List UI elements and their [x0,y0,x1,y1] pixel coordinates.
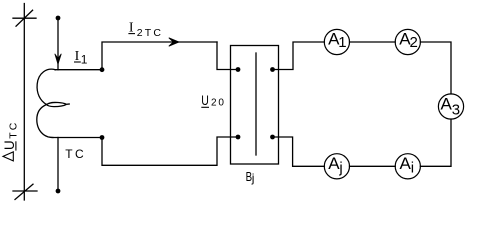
transformer TC winding lower arc [37,105,53,138]
arrow I2tc [169,38,179,46]
wire lower link to box [102,137,238,165]
svg-text:A: A [400,154,412,173]
wire A3 to corner to Ai [420,119,451,166]
ammeter Aj [324,154,349,179]
transformer TC winding upper arc [37,69,55,104]
svg-text:20: 20 [211,98,226,109]
switch box Bj divider [255,53,257,155]
transformer TC winding crossing lens [47,102,70,106]
wire Aj to box lower-right [273,137,325,166]
svg-text:j: j [338,160,342,177]
wire drop to box upper-left [217,42,238,70]
svg-text:j: j [251,171,255,185]
svg-text:1: 1 [338,34,346,51]
wire to bottom terminal [57,138,59,192]
wire riser to top bus [102,42,217,70]
ammeter A2 [395,29,420,54]
wire box upper-right to A1 [273,42,325,70]
wire A2 to corner to A3 [420,42,451,94]
svg-text:1: 1 [81,53,88,67]
wire TC bottom horizontal [52,137,102,139]
wire A1 to A2 [350,41,396,43]
ammeter Ai [395,154,420,179]
ammeter A3 [438,94,463,119]
node bottom terminal [56,189,61,194]
node box terminal lower-left [236,135,241,140]
node box terminal upper-right [270,67,275,72]
svg-text:A: A [441,95,453,114]
node top terminal [56,16,61,21]
node box terminal upper-left [236,67,241,72]
svg-text:A: A [328,154,340,173]
svg-text:TC: TC [65,147,86,161]
label dUtc rotated: underline of U [15,141,17,150]
arrow I1 [55,54,62,64]
dimension tick bottom [13,190,37,192]
svg-text:3: 3 [452,101,460,118]
wire primary vertical [57,18,59,70]
svg-text:i: i [411,160,414,177]
svg-text:2TC: 2TC [137,27,163,39]
node TC bottom junction [100,135,105,140]
svg-text:2: 2 [410,34,418,51]
dimension tick top [13,17,36,19]
label dUtc rotated: delta triangle [3,152,13,161]
node box terminal lower-right [270,135,275,140]
svg-text:U: U [201,93,209,108]
svg-text:TC: TC [8,121,20,139]
label dUtc rotated: U and tc [2,121,20,150]
wire TC top horizontal [55,69,102,71]
dimension line for ΔUtc [23,4,25,201]
wire Ai to Aj [350,165,396,167]
node TC top junction [100,67,105,72]
switch box Bj outline [231,46,279,165]
ammeter A1 [324,29,349,54]
svg-text:U: U [2,140,17,150]
